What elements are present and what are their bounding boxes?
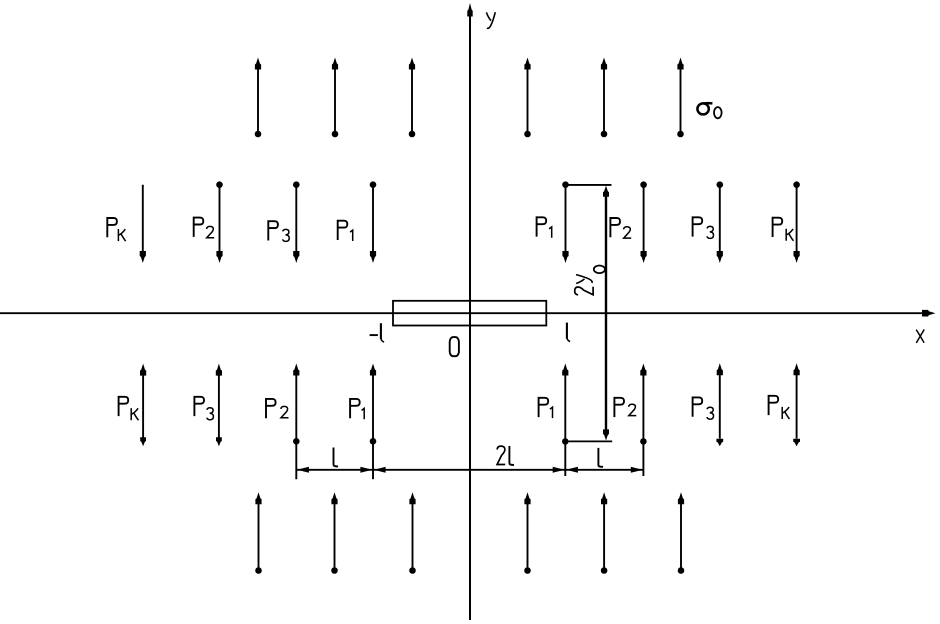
dimension 2l line with arrowheads bbox=[373, 467, 565, 473]
x-axis label x bbox=[916, 330, 924, 343]
label P_1 upper right bbox=[537, 217, 552, 237]
stress arrow top 1 (upward) bbox=[255, 58, 262, 138]
dimension 2y0 bottom tick bbox=[565, 440, 612, 442]
crack rectangle bbox=[393, 301, 546, 326]
label P_K upper right bbox=[773, 218, 794, 241]
y-axis label y bbox=[486, 12, 495, 28]
label P_1 upper left bbox=[338, 221, 353, 241]
x-axis bbox=[0, 310, 936, 317]
label 2l bbox=[497, 446, 514, 465]
label l at right crack tip bbox=[567, 323, 570, 342]
label P_K lower left bbox=[119, 397, 139, 420]
stress arrow bottom 4 (upward) bbox=[524, 492, 531, 574]
force P3 lower left arrow (double-headed) bbox=[216, 364, 222, 447]
label P_3 upper left bbox=[268, 221, 289, 241]
force P1 lower right arrow (upward, dot at bottom) bbox=[562, 364, 569, 477]
label sigma0 bbox=[697, 103, 721, 118]
label P_K upper left bbox=[107, 218, 125, 241]
force P2 upper arrow (downward) bbox=[640, 181, 647, 263]
force P3 upper arrow (downward) bbox=[293, 181, 300, 263]
stress arrow top 5 (upward) bbox=[601, 58, 608, 138]
label P_1 lower right bbox=[539, 398, 553, 418]
label P_3 lower left bbox=[194, 397, 213, 420]
stress arrow top 2 (upward) bbox=[332, 58, 339, 138]
stress arrow bottom 5 (upward) bbox=[601, 492, 608, 574]
label P_2 lower left bbox=[266, 399, 289, 418]
force PK upper arrow (downward) bbox=[140, 185, 146, 263]
force P2 lower left arrow (upward, dot at bottom) bbox=[293, 364, 300, 480]
label 2y0 (rotated) bbox=[575, 266, 605, 295]
force P2 upper arrow (downward) bbox=[216, 181, 223, 263]
label P_K lower right bbox=[769, 396, 790, 419]
force PK upper arrow (downward) bbox=[793, 181, 800, 263]
label P_2 lower right bbox=[614, 398, 636, 417]
label L left bbox=[334, 448, 339, 467]
force PK lower right arrow (double-headed) bbox=[793, 363, 800, 446]
label P_2 upper left bbox=[194, 218, 215, 238]
label 0 at origin bbox=[450, 337, 459, 356]
label P_3 lower right bbox=[693, 397, 714, 419]
y-axis bbox=[467, 3, 472, 620]
stress arrow top 3 (upward) bbox=[409, 58, 416, 138]
force P1 lower left arrow (upward, dot at bottom) bbox=[370, 364, 377, 480]
force P2 lower right arrow (upward, dot at bottom) bbox=[640, 364, 647, 477]
force PK lower left arrow (double-headed) bbox=[140, 364, 146, 447]
dimension L left line with arrowheads bbox=[296, 467, 373, 473]
dimension 2y0 top tick bbox=[563, 184, 611, 186]
dimension L right line with arrowheads bbox=[565, 467, 643, 473]
dimension 2y0 vertical line with arrowheads bbox=[603, 186, 609, 441]
force P3 lower right arrow (double-headed) bbox=[716, 363, 723, 446]
stress arrow top 6 (upward) bbox=[677, 58, 684, 138]
stress arrow top 4 (upward) bbox=[524, 58, 531, 138]
stress arrow bottom 1 (upward) bbox=[255, 492, 262, 574]
label P_3 upper right bbox=[693, 217, 714, 238]
label L right bbox=[598, 448, 603, 467]
label P_2 upper right bbox=[610, 218, 631, 238]
label P_1 lower left bbox=[350, 399, 364, 419]
label -l at left crack tip bbox=[370, 323, 385, 342]
stress arrow bottom 2 (upward) bbox=[331, 492, 338, 574]
stress arrow bottom 6 (upward) bbox=[678, 492, 685, 574]
force P3 upper arrow (downward) bbox=[717, 181, 724, 263]
force P1 upper arrow (downward) bbox=[370, 181, 377, 263]
stress arrow bottom 3 (upward) bbox=[409, 492, 416, 574]
force P1 upper arrow (downward) bbox=[562, 181, 569, 263]
